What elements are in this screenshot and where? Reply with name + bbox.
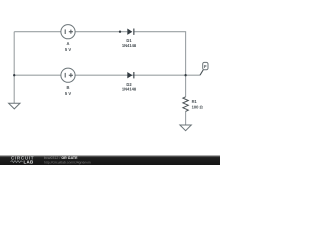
svg-text:5 V: 5 V — [65, 47, 71, 52]
svg-text:B: B — [67, 85, 70, 90]
svg-text:5 V: 5 V — [65, 91, 71, 96]
svg-text:1N4148: 1N4148 — [122, 43, 137, 48]
svg-text:LAB: LAB — [24, 160, 34, 165]
svg-text:R1: R1 — [192, 99, 198, 104]
svg-text:F: F — [204, 64, 207, 69]
svg-text:1N4148: 1N4148 — [122, 87, 137, 92]
svg-text:100 Ω: 100 Ω — [192, 104, 204, 109]
svg-text:A: A — [67, 41, 70, 46]
svg-text:http://circuitlab.com/c/4gn6nv: http://circuitlab.com/c/4gn6nvm — [44, 160, 91, 164]
